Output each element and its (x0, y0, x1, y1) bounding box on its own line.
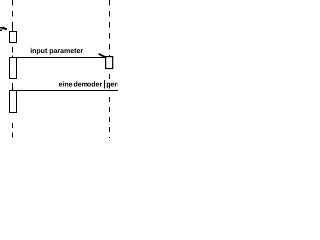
lifeline A dash below bar3 (second) (12, 132, 14, 137)
activation bar B on lifeline B (106, 57, 113, 69)
activation bar 3 on lifeline A (10, 91, 17, 113)
lifeline A (dashed, top segment) (12, 0, 14, 6)
lifeline B dash below bar B (109, 74, 111, 79)
lifeline A dash below bar3 (first) (12, 123, 14, 128)
message 2 line (10, 57, 106, 59)
lifeline B (dashed, top segment) (109, 0, 111, 57)
activation bar 2 on lifeline A (10, 58, 17, 79)
svg-text:input parameter: input parameter (30, 47, 83, 55)
message 3 line (continues past right edge) (10, 90, 119, 92)
lifeline A short dash above bar2 (12, 56, 14, 58)
lifeline B (dashed, bottom segment) (109, 97, 111, 138)
message 2 arrowhead (half barb) (99, 54, 106, 57)
message label fragment stripe 1 (cropped at left edge) (0, 27, 2, 28)
svg-text:eine: eine (59, 81, 73, 89)
message 3 label stroke (letter l) (104, 80, 105, 88)
lifeline B dash crossing label row (109, 83, 111, 89)
message label fragment stripe 3 (0, 30, 2, 31)
svg-text:dem: dem (74, 81, 88, 89)
svg-text:person: person (106, 82, 118, 89)
activation bar 1 on lifeline A (10, 32, 17, 43)
message arrow 1 (half barb into activation 1) (2, 28, 7, 30)
svg-text:oder: oder (87, 81, 102, 89)
message label fragment stripe 2 (0, 28, 2, 29)
lifeline A dash between bar1 and bar2 (12, 47, 14, 53)
lifeline A dash 3 merging into activation 1 (12, 22, 14, 32)
lifeline A dash 2 (12, 11, 14, 17)
lifeline A dash above bar3 (12, 83, 14, 91)
